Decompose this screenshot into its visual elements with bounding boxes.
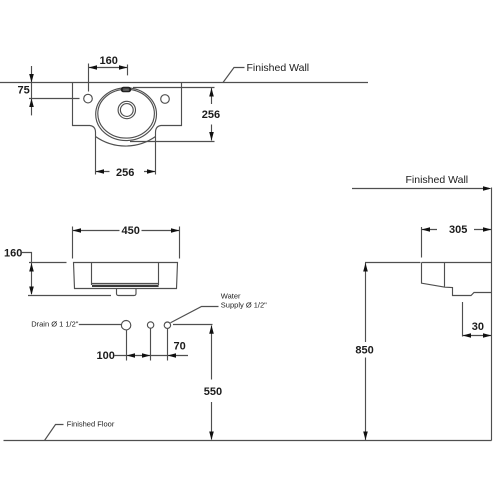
basin body outline (front) [74, 263, 178, 289]
svg-text:450: 450 [122, 225, 140, 237]
dimension 75 (plan) extension line [29, 98, 80, 100]
svg-text:160: 160 [100, 55, 118, 67]
svg-text:850: 850 [355, 344, 373, 356]
drain stub (front) [117, 289, 137, 296]
dimension 256 vertical (plan) line [211, 88, 213, 141]
svg-text:75: 75 [18, 85, 30, 97]
wire wall line (side) [491, 188, 493, 441]
basin profile (side) [422, 263, 492, 296]
wall arrowhead (side) [483, 186, 492, 191]
dimension 160 (front) leader [22, 253, 32, 295]
svg-text:70: 70 [174, 341, 186, 353]
overflow slot (plan) [122, 88, 131, 92]
bowl outer rim (plan) [96, 88, 157, 141]
basin bottom shadow band (front) [92, 285, 159, 287]
drain pipe line (front) [126, 330, 128, 361]
dimension 75 (plan) arrowheads [29, 74, 34, 107]
basin inner bottom line (front) [92, 283, 159, 285]
dimension 30 line [463, 335, 492, 337]
faucet hole left (plan) [84, 94, 93, 103]
svg-text:Finished Wall: Finished Wall [406, 174, 469, 186]
bowl inner rim (plan) [98, 89, 155, 138]
svg-text:550: 550 [204, 386, 222, 398]
svg-text:100: 100 [97, 350, 115, 362]
dimension 450 line [73, 230, 180, 232]
dimension 160 (front) arrowheads [29, 263, 34, 295]
faucet hole right (plan) [161, 95, 170, 104]
svg-text:Finished Wall: Finished Wall [247, 62, 310, 74]
wall arrow line (side) [352, 188, 489, 190]
drain circle (front) [121, 321, 130, 330]
dimension 256 vertical (plan) extension lines [130, 88, 215, 142]
supply pipe right line (front) [167, 329, 169, 361]
dimension 100/70 arrowheads [127, 353, 177, 358]
Finished Floor leader [45, 425, 64, 441]
dimension 305 line [422, 229, 492, 231]
svg-text:160: 160 [4, 247, 22, 259]
basin inner left edge (front) [91, 263, 93, 286]
basin inner right edge (front) [158, 263, 160, 286]
dimension 305 extension line [421, 227, 423, 258]
svg-text:30: 30 [472, 321, 484, 333]
node Finished Wall leader (plan) [223, 68, 245, 83]
svg-text:256: 256 [116, 167, 134, 179]
dimension 550 line [211, 326, 213, 440]
svg-text:305: 305 [449, 224, 467, 236]
drain outer circle (plan) [118, 101, 135, 118]
wire wall line (plan view) [0, 82, 368, 84]
dimension 850 extension line [365, 262, 421, 264]
supply circle right (front) [164, 322, 170, 328]
dimension 850 line [365, 263, 367, 440]
Drain label leader [79, 324, 121, 326]
supply pipe left line (front) [150, 328, 152, 360]
dimension 256 horizontal (plan) line [96, 171, 156, 173]
svg-text:Supply Ø 1/2": Supply Ø 1/2" [221, 300, 267, 309]
dimension 850 arrowheads [363, 263, 368, 440]
dimension 550 arrowheads [209, 325, 214, 440]
dimension 160 (plan) arrowheads [89, 65, 128, 70]
dimension 256 horizontal (plan) extension lines [96, 137, 156, 175]
dimension 450 arrowheads [73, 228, 180, 233]
basin mounting plate outline (plan) [73, 83, 182, 147]
dimension 305 arrowheads [422, 227, 492, 232]
svg-text:Water: Water [221, 291, 241, 300]
dimension 30 arrowheads [463, 333, 492, 338]
dimension 160 (plan) extension lines [89, 64, 128, 92]
svg-text:256: 256 [202, 109, 220, 121]
svg-text:Drain Ø 1 1/2": Drain Ø 1 1/2" [31, 320, 79, 329]
dimension 256 horizontal (plan) arrowheads [96, 169, 156, 174]
dimension 550 extension line [173, 324, 213, 326]
supply pipe line (side) [462, 302, 464, 337]
dimension 160 (front) extension lines [28, 263, 111, 296]
wire floor line [4, 440, 492, 442]
dimension 100/70 line [115, 355, 189, 357]
dimension 160 (plan) line [89, 67, 128, 69]
supply circle left (front) [147, 322, 153, 328]
Water Supply leader [171, 307, 219, 323]
drain inner circle (plan) [120, 104, 133, 117]
svg-text:Finished Floor: Finished Floor [67, 419, 115, 428]
dimension 75 (plan) line [31, 66, 33, 115]
dimension 450 extension lines [73, 227, 180, 259]
dimension 256 vertical (plan) arrowheads [209, 88, 214, 141]
